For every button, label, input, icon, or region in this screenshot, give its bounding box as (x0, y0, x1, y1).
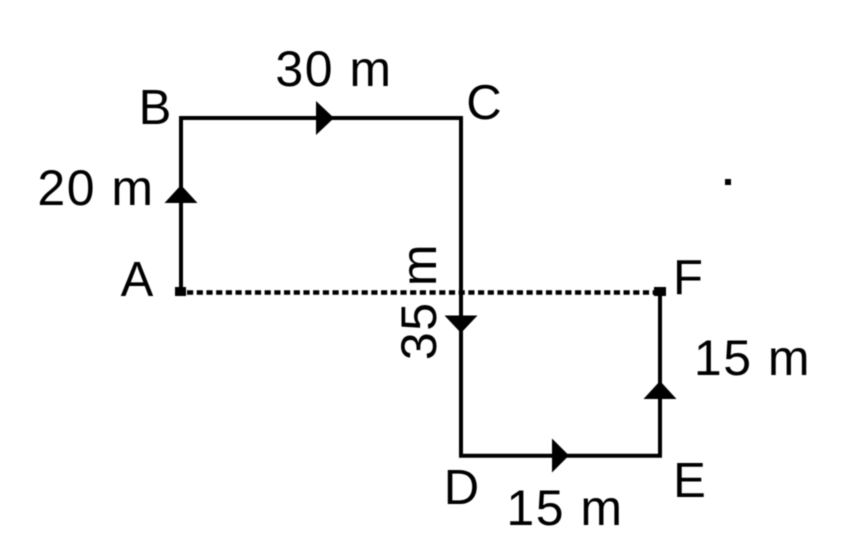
svg-text:30 m: 30 m (275, 41, 392, 97)
wire B-C (horizontal segment) (179, 116, 463, 120)
svg-text:15 m: 15 m (506, 480, 623, 536)
svg-text:D: D (444, 461, 479, 515)
svg-text:F: F (673, 251, 703, 305)
arrow right on wire D-E (552, 439, 569, 473)
arrow down on wire C-D (445, 316, 478, 334)
svg-text:B: B (139, 81, 172, 135)
svg-text:C: C (466, 76, 501, 130)
dashed wire A-F (resultant, horizontal dashed line) (187, 290, 658, 295)
wire C-D (vertical segment) (459, 116, 463, 457)
wire A-B (vertical segment from A up to B) (179, 118, 183, 292)
arrow up on wire A-B (165, 185, 198, 203)
arrow up on wire E-F (644, 381, 677, 399)
arrow right on wire B-C (316, 101, 334, 135)
wire D-E (horizontal segment) (459, 454, 662, 458)
svg-text:35 m: 35 m (391, 243, 447, 360)
wire E-F (vertical segment) (658, 292, 662, 457)
node F dot (654, 287, 666, 296)
stray dot artifact (725, 179, 731, 185)
node A dot (175, 287, 186, 296)
svg-text:E: E (673, 454, 706, 508)
svg-text:20 m: 20 m (37, 160, 154, 216)
svg-text:A: A (121, 253, 154, 307)
svg-text:15 m: 15 m (694, 330, 811, 386)
